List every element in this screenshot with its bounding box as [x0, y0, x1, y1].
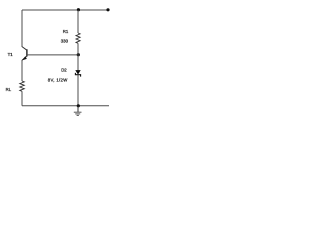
- svg-text:T1: T1: [8, 52, 14, 57]
- wire R1 top lead: [77, 10, 79, 33]
- svg-text:RL: RL: [6, 87, 12, 92]
- wire D2 cathode lead: [77, 75, 79, 106]
- wire R1 bottom lead: [77, 43, 79, 54]
- node junction bottom rail / ground: [77, 104, 80, 107]
- svg-text:R1: R1: [63, 29, 69, 34]
- resistor R1: [76, 33, 80, 43]
- node junction top rail / R1: [77, 8, 80, 11]
- wire left vertical (collector feed): [21, 10, 23, 47]
- wire emitter vertical: [21, 60, 23, 81]
- wire bottom rail: [22, 105, 109, 107]
- node top terminal: [106, 8, 109, 11]
- node junction base / R1 / D2: [77, 53, 80, 56]
- diode D2 zener: [75, 70, 80, 77]
- resistor RL: [20, 81, 25, 91]
- wire D2 anode lead: [77, 55, 79, 71]
- wire top rail: [22, 9, 108, 11]
- svg-text:330: 330: [61, 39, 69, 44]
- wire base lead to node: [27, 54, 78, 56]
- svg-text:D2: D2: [61, 67, 67, 72]
- ground: [74, 106, 82, 116]
- svg-text:8V, 1/2W: 8V, 1/2W: [48, 77, 68, 82]
- wire RL to bottom rail: [21, 91, 23, 106]
- transistor T1: [22, 47, 27, 61]
